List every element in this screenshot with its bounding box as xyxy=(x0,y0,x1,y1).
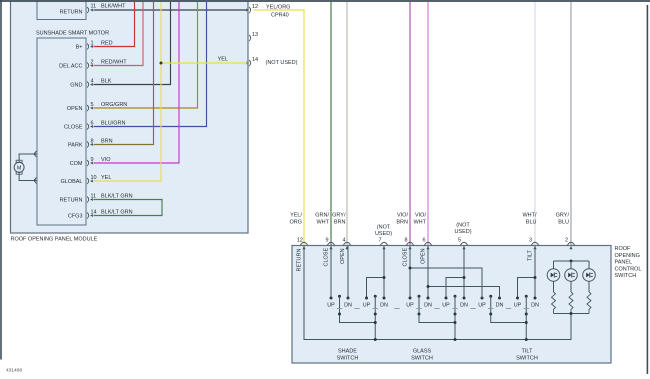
svg-text:DN: DN xyxy=(344,303,352,309)
svg-text:RETURN: RETURN xyxy=(60,198,83,204)
svg-text:5: 5 xyxy=(91,102,94,108)
svg-text:14: 14 xyxy=(252,57,258,63)
svg-text:RETURN: RETURN xyxy=(60,10,83,16)
svg-text:(NOT: (NOT xyxy=(377,225,391,231)
svg-text:DN: DN xyxy=(380,303,388,309)
svg-text:BLK/WHT: BLK/WHT xyxy=(101,4,126,10)
svg-text:11: 11 xyxy=(91,4,97,10)
svg-text:SWITCH: SWITCH xyxy=(516,356,538,362)
svg-text:2: 2 xyxy=(91,60,94,66)
svg-text:RETURN: RETURN xyxy=(297,249,303,272)
svg-text:UP: UP xyxy=(478,303,486,309)
svg-text:BLK: BLK xyxy=(101,79,112,85)
svg-text:WHT/: WHT/ xyxy=(522,213,537,219)
svg-text:RED: RED xyxy=(101,41,113,47)
svg-text:UP: UP xyxy=(442,303,450,309)
svg-text:UP: UP xyxy=(363,303,371,309)
svg-text:GRY/: GRY/ xyxy=(332,213,346,219)
svg-text:VIO: VIO xyxy=(101,157,111,163)
svg-text:CFG3: CFG3 xyxy=(68,214,83,220)
svg-text:BLU: BLU xyxy=(558,220,569,226)
svg-text:6: 6 xyxy=(422,238,425,244)
svg-text:PANEL: PANEL xyxy=(615,260,633,266)
svg-text:(NOT USED): (NOT USED) xyxy=(266,60,298,66)
svg-text:10: 10 xyxy=(91,175,97,181)
svg-text:PARK: PARK xyxy=(68,143,83,149)
svg-text:ORG: ORG xyxy=(289,220,302,226)
svg-text:ROOF OPENING PANEL MODULE: ROOF OPENING PANEL MODULE xyxy=(11,237,98,243)
svg-text:BRN: BRN xyxy=(396,220,408,226)
svg-text:BLK/LT GRN: BLK/LT GRN xyxy=(101,194,133,200)
svg-text:OPEN: OPEN xyxy=(340,248,346,264)
svg-text:CLOSE: CLOSE xyxy=(324,248,330,267)
svg-text:CLOSE: CLOSE xyxy=(64,125,83,131)
svg-text:TILT: TILT xyxy=(522,349,534,355)
svg-text:9: 9 xyxy=(325,238,328,244)
svg-text:OPEN: OPEN xyxy=(421,248,427,264)
svg-text:11: 11 xyxy=(91,194,97,200)
svg-text:GRY/: GRY/ xyxy=(556,213,570,219)
svg-text:WHT: WHT xyxy=(316,220,329,226)
svg-text:YEL: YEL xyxy=(218,57,228,63)
svg-text:1: 1 xyxy=(91,41,94,47)
svg-text:GRN/: GRN/ xyxy=(315,213,329,219)
svg-text:BLU: BLU xyxy=(526,220,537,226)
svg-text:SWITCH: SWITCH xyxy=(615,273,637,279)
svg-text:B+: B+ xyxy=(76,45,83,51)
svg-text:DN: DN xyxy=(496,303,504,309)
svg-text:UP: UP xyxy=(514,303,522,309)
svg-text:SWITCH: SWITCH xyxy=(337,356,359,362)
svg-text:BRN: BRN xyxy=(334,220,346,226)
svg-text:CLOSE: CLOSE xyxy=(403,248,409,267)
svg-text:BLK/LT GRN: BLK/LT GRN xyxy=(101,210,133,216)
svg-text:WHT: WHT xyxy=(413,220,426,226)
svg-text:ORG/GRN: ORG/GRN xyxy=(101,102,127,108)
svg-text:GND: GND xyxy=(70,83,82,89)
svg-text:12: 12 xyxy=(297,238,303,244)
svg-text:OPENING: OPENING xyxy=(615,253,640,259)
svg-text:YEL/: YEL/ xyxy=(290,213,302,219)
svg-text:8: 8 xyxy=(404,238,407,244)
svg-text:VIO/: VIO/ xyxy=(397,213,408,219)
svg-text:2: 2 xyxy=(565,238,568,244)
svg-text:UP: UP xyxy=(406,303,414,309)
svg-text:USED): USED) xyxy=(375,231,392,237)
svg-text:CPR40: CPR40 xyxy=(271,13,289,19)
svg-text:8: 8 xyxy=(91,139,94,145)
svg-text:14: 14 xyxy=(91,210,97,216)
svg-text:431408: 431408 xyxy=(6,368,22,374)
svg-text:CONTROL: CONTROL xyxy=(615,266,642,272)
svg-text:SWITCH: SWITCH xyxy=(411,356,433,362)
svg-text:UP: UP xyxy=(327,303,335,309)
svg-text:7: 7 xyxy=(378,238,381,244)
svg-text:SHADE: SHADE xyxy=(338,349,357,355)
svg-text:COM: COM xyxy=(70,161,83,167)
svg-text:4: 4 xyxy=(91,79,94,85)
svg-text:DN: DN xyxy=(424,303,432,309)
svg-text:DN: DN xyxy=(460,303,468,309)
svg-text:5: 5 xyxy=(458,238,461,244)
svg-text:12: 12 xyxy=(252,4,258,10)
svg-text:GLASS: GLASS xyxy=(413,349,432,355)
svg-text:ROOF: ROOF xyxy=(615,246,632,252)
svg-text:(NOT: (NOT xyxy=(456,223,470,229)
svg-text:BRN: BRN xyxy=(101,139,113,145)
svg-text:6: 6 xyxy=(91,121,94,127)
svg-text:OPEN: OPEN xyxy=(67,106,83,112)
svg-text:USED): USED) xyxy=(454,229,471,235)
svg-text:GLOBAL: GLOBAL xyxy=(60,179,82,185)
svg-text:BLU/GRN: BLU/GRN xyxy=(101,121,125,127)
svg-text:YEL: YEL xyxy=(101,175,111,181)
svg-text:9: 9 xyxy=(91,157,94,163)
svg-text:13: 13 xyxy=(252,32,258,38)
svg-text:RED/WHT: RED/WHT xyxy=(101,60,127,66)
svg-text:DN: DN xyxy=(531,303,539,309)
svg-text:3: 3 xyxy=(529,238,532,244)
svg-text:M: M xyxy=(17,166,22,172)
svg-text:SUNSHADE SMART MOTOR: SUNSHADE SMART MOTOR xyxy=(36,31,109,37)
svg-text:4: 4 xyxy=(342,238,345,244)
svg-text:TILT: TILT xyxy=(528,249,534,261)
svg-text:DEL ACC: DEL ACC xyxy=(59,64,82,70)
svg-text:VIO/: VIO/ xyxy=(415,213,426,219)
